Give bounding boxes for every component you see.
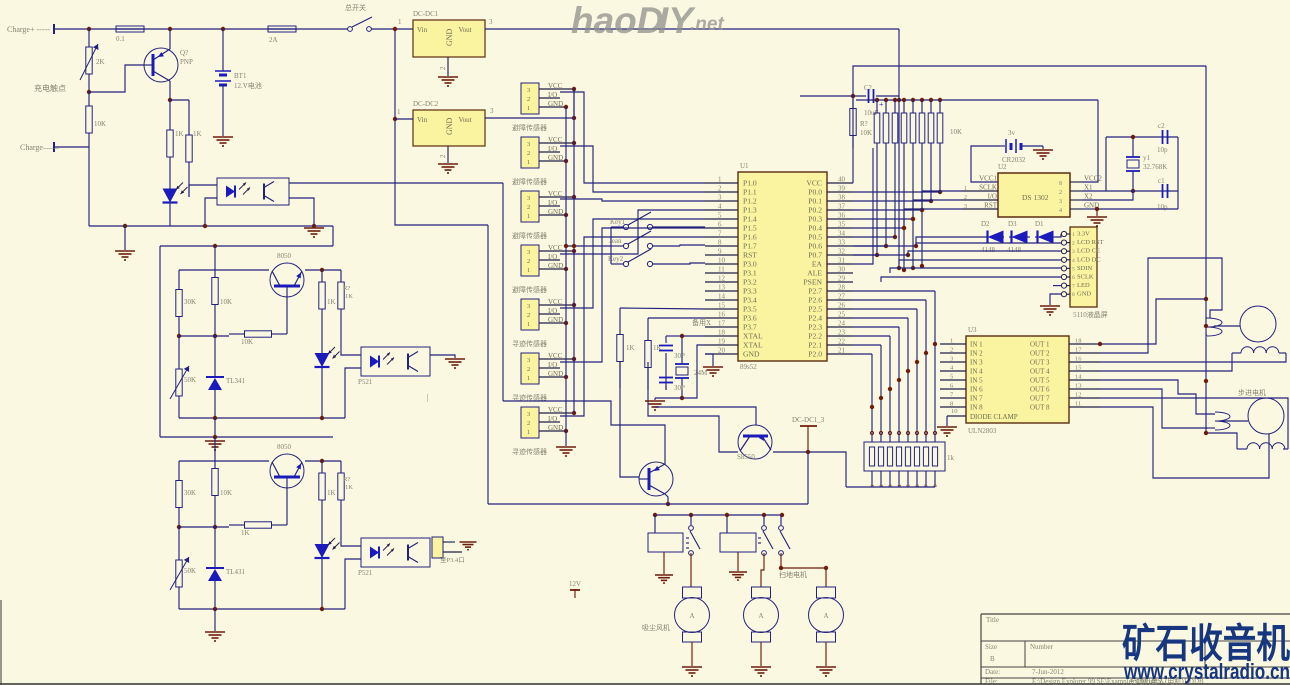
svg-text:1: 1 [398,18,402,26]
wire keys common [564,227,611,264]
watermark haoDIY.net [571,0,724,41]
svg-text:P2.7: P2.7 [808,287,822,296]
svg-text:A: A [824,612,829,620]
svg-text:至P3.4口: 至P3.4口 [440,556,465,564]
wire S8550 emitter [655,407,756,425]
ground DC-DC1 [438,77,458,86]
svg-text:40: 40 [838,176,846,184]
svg-text:27: 27 [838,293,846,301]
ground relay K1 [655,552,673,583]
svg-text:P2.5: P2.5 [808,305,822,314]
inductor motor2 coil B [1237,443,1288,449]
ground charger rail tap [115,226,135,260]
inductor motor2 coil A [1208,412,1248,430]
svg-text:Key1: Key1 [610,218,626,226]
svg-text:P2.1: P2.1 [808,341,822,350]
svg-text:LCD RST: LCD RST [1077,239,1104,246]
resistor 1K a [319,270,336,321]
svg-text:10p: 10p [1157,146,1168,154]
svg-text:22: 22 [838,338,846,346]
svg-text:GND: GND [445,28,454,46]
svg-text:1: 1 [397,108,401,116]
svg-text:PSEN: PSEN [803,278,822,287]
wire OUT6 route [1100,389,1208,428]
svg-text:P2.2: P2.2 [808,332,822,341]
svg-text:4148: 4148 [981,246,996,254]
junction J4 VCC bus [572,249,576,253]
svg-text:SCLK: SCLK [979,184,997,192]
wire OUT3 to coilB right [1100,353,1286,362]
svg-text:RST: RST [743,251,757,260]
svg-text:P3.2: P3.2 [743,278,757,287]
svg-text:1: 1 [527,321,530,328]
svg-text:XTAL: XTAL [743,332,763,341]
svg-text:S8550: S8550 [737,453,755,461]
capacitor c2 10p [1157,122,1168,154]
wire 1K b to opto [341,321,361,355]
svg-text:39: 39 [838,185,846,193]
svg-text:IN 4: IN 4 [970,368,983,376]
svg-text:U3: U3 [968,326,977,334]
svg-text:SDIN: SDIN [1077,265,1092,272]
wire P2 to IN staircase [853,291,937,442]
svg-text:寻迹传感器: 寻迹传感器 [512,339,547,348]
LED charger indicator [163,183,188,227]
ground motor1 [682,642,702,676]
wire sensor1 I/O to MCU [560,92,705,183]
svg-text:OUT 1: OUT 1 [1030,341,1050,349]
potentiometer 50K [170,527,196,609]
svg-text:1: 1 [527,105,530,112]
svg-text:.net: .net [690,14,724,35]
svg-text:OUT 4: OUT 4 [1030,368,1050,376]
svg-text:IN 2: IN 2 [970,350,983,358]
svg-text:P0.1: P0.1 [808,197,822,206]
junction J3 VCC bus [572,195,576,199]
resistor 1K base pullup a [167,100,184,187]
switch Key2 [608,249,705,267]
svg-text:1K: 1K [175,130,184,138]
wire EA pullup [853,148,873,264]
svg-text:89s52: 89s52 [740,363,757,371]
wire contact K1 to motor1 [690,553,692,587]
svg-text:3: 3 [527,411,530,418]
svg-text:29: 29 [838,275,846,283]
wire LCD GND [1050,294,1061,305]
IC U2 DS1302 [962,163,1102,217]
title block text [985,616,1204,685]
wire crystal ground link [655,398,682,400]
svg-text:24M: 24M [694,369,708,377]
svg-text:DC-DC1: DC-DC1 [413,10,439,18]
svg-text:28: 28 [838,284,846,292]
motor M4 扫地电机 [744,570,808,642]
svg-text:X1: X1 [1084,184,1093,192]
wire XTAL1 [666,334,705,338]
svg-text:备用X: 备用X [692,318,711,327]
wire block second rail [179,268,341,272]
svg-text:3: 3 [718,194,722,202]
wire left feeder [160,226,333,437]
svg-text:18: 18 [718,329,726,337]
svg-text:步进电机: 步进电机 [1238,388,1266,397]
power port DC-DC1_3 [792,416,825,452]
svg-text:1: 1 [527,375,530,382]
svg-text:IN 3: IN 3 [970,359,983,367]
wire OUT1 route [1098,299,1206,346]
svg-text:PNP: PNP [180,58,193,66]
wire charge+ rail y29 [54,28,348,30]
svg-text:I/O: I/O [548,199,557,207]
svg-text:GND: GND [548,100,563,108]
pin DC-DC1 gnd 2 [439,57,448,76]
svg-text:I/O: I/O [988,193,997,201]
svg-text:Size: Size [985,643,997,651]
wire contact K2a to motor2 [761,553,764,587]
svg-text:1K: 1K [241,529,250,537]
wire charger bottom rail [89,224,333,228]
svg-text:C?: C? [864,84,872,92]
svg-text:D1: D1 [1035,220,1044,228]
svg-text:1K: 1K [327,298,336,306]
svg-text:LCD CE: LCD CE [1077,248,1100,255]
wire NPN emitter [665,494,670,506]
junction J5 VCC bus [572,303,576,307]
wire Q emitter to rail [169,29,171,49]
wire SDIN link [890,268,1061,273]
ground DC-DC2 [438,164,458,173]
wire block second rail [179,459,341,463]
svg-text:P0.6: P0.6 [808,242,822,251]
svg-text:P521: P521 [358,378,373,386]
svg-text:1: 1 [527,267,530,274]
svg-text:1K: 1K [193,130,202,138]
label 备用X [692,318,711,327]
junction J1 GND bus [564,105,568,109]
svg-text:P1.5: P1.5 [743,224,757,233]
svg-text:VCC: VCC [548,352,563,360]
junction J5 GND bus [564,321,568,325]
junction J7 GND bus [564,429,568,433]
transistor 8050 [270,252,304,297]
svg-text:32.768K: 32.768K [1143,163,1167,171]
svg-text:OUT 5: OUT 5 [1030,377,1050,385]
LED indicator [315,512,340,609]
resistor network 1k x8 [864,431,955,487]
wire S8550 collector [773,450,846,487]
wire 1K to NPN base [620,362,639,477]
svg-text:2: 2 [527,312,530,319]
svg-text:2: 2 [439,66,447,70]
svg-text:A: A [690,612,695,620]
node Charge- terminal [20,142,60,152]
svg-text:25: 25 [838,311,846,319]
svg-text:30: 30 [838,266,846,274]
switch Key1 [610,212,705,230]
battery BT1 12V [215,29,262,136]
contact K2a [762,526,773,556]
svg-text:3: 3 [964,204,967,210]
svg-text:EA: EA [812,260,823,269]
wire pack bottom bus [846,486,935,488]
resistor 10K base [229,331,287,346]
svg-text:P1.1: P1.1 [743,188,757,197]
wire sensor5 I/O to MCU [560,219,705,308]
connector J7 寻迹传感器 [512,406,574,456]
wire P0 pin links [853,192,940,255]
junction divider [177,525,229,529]
wire SCLK link [881,277,1061,282]
svg-text:15: 15 [718,302,726,310]
svg-text:2: 2 [964,195,967,201]
wire DS1302 RST [902,209,962,272]
svg-text:2: 2 [527,204,530,211]
svg-text:ALE: ALE [807,269,822,278]
svg-text:RST: RST [984,202,998,210]
svg-text:GND: GND [548,262,563,270]
ground P3.4 connector [460,542,477,550]
wire block top rail [160,244,333,248]
resistor 1K a [319,461,336,512]
wire sensor2 I/O to MCU [560,146,705,192]
label 步进电机 [1238,388,1266,397]
svg-text:www.crystalradio.cn: www.crystalradio.cn [1123,659,1290,684]
resistor 10K vertical [212,437,232,527]
svg-text:VCC1: VCC1 [979,175,997,183]
svg-text:扫地电机: 扫地电机 [779,570,807,579]
svg-text:3: 3 [527,87,530,94]
wire relay supply rail [488,452,808,504]
connector 5110 LCD [1061,227,1107,319]
svg-text:6: 6 [1072,275,1075,281]
transistor Q 8050 driver [639,462,673,496]
crystal X1 24M [675,336,708,398]
svg-text:Vout: Vout [458,116,471,124]
svg-text:30K: 30K [184,298,196,306]
svg-text:1: 1 [718,176,722,184]
resistor 30K [176,461,196,527]
svg-text:SCLK: SCLK [1077,274,1094,281]
resistor 10K vertical [212,246,232,336]
node Charge+ terminal [7,24,54,34]
svg-text:GND: GND [548,154,563,162]
inductor motor1 coil B [1232,347,1286,353]
IC U3 ULN2803 [940,326,1100,435]
wire to opto input [189,185,217,197]
junction J3 GND bus [564,213,568,217]
svg-text:LCD DC: LCD DC [1077,256,1101,263]
LED indicator [315,321,340,418]
resistor 10K charger divider [86,92,106,147]
svg-text:P1.6: P1.6 [743,233,757,242]
svg-text:I/O: I/O [548,361,557,369]
motor M1 stepper [1240,306,1276,342]
wire relay control rail [653,513,784,517]
connector J4 避障传感器 [512,244,574,294]
ground CR2032 [1033,146,1053,159]
svg-text:1: 1 [527,159,530,166]
svg-text:13: 13 [718,284,726,292]
svg-text:23: 23 [838,329,846,337]
svg-text:GND: GND [548,424,563,432]
svg-text:3: 3 [527,195,530,202]
wire opto collector long run y183 [289,182,503,184]
svg-text:10K: 10K [220,298,232,306]
svg-text:15: 15 [1075,365,1082,372]
wire sensor7 I/O to MCU [560,237,705,416]
svg-text:避障传感器: 避障传感器 [512,231,547,240]
svg-text:U1: U1 [740,162,749,170]
svg-text:8: 8 [1059,181,1062,187]
svg-text:7-Jun-2012: 7-Jun-2012 [1032,668,1064,676]
wire LCD RST link [916,242,1061,244]
svg-text:3: 3 [1072,249,1075,255]
svg-text:X2: X2 [1084,193,1093,201]
svg-text:7: 7 [718,230,722,238]
svg-text:35: 35 [838,221,846,229]
svg-text:2: 2 [527,420,530,427]
svg-text:GND: GND [1077,291,1091,298]
transistor 8050 [270,443,304,488]
svg-text:Charge——: Charge—— [20,143,60,152]
svg-text:VCC: VCC [548,298,563,306]
junction J2 VCC bus [572,141,576,145]
svg-text:3: 3 [527,357,530,364]
label 充电触点 [34,83,66,93]
relay K1 [648,515,691,552]
resistor 1K b [338,270,353,321]
svg-text:10: 10 [718,257,726,265]
svg-text:P521: P521 [358,569,373,577]
ground battery [213,137,233,146]
wire block top rail [160,435,333,439]
svg-text:24: 24 [838,320,846,328]
svg-text:ULN2803: ULN2803 [968,427,997,435]
svg-text:Number: Number [1030,643,1054,651]
svg-text:5110液晶屏: 5110液晶屏 [1073,310,1108,319]
optocoupler U? charger [217,178,289,205]
connector J3 避障传感器 [512,190,574,240]
svg-text:5: 5 [1072,266,1075,272]
ground crystal [645,401,665,410]
title block frame [981,614,1290,684]
wire DC-DC1 output [485,18,899,29]
svg-text:GND: GND [548,370,563,378]
capacitor 30P upper [659,336,685,390]
svg-text:3v: 3v [1008,129,1016,137]
shunt regulator TL431 [206,527,246,609]
svg-text:D2: D2 [981,220,990,228]
svg-text:R?: R? [860,120,868,128]
svg-text:12.V电池: 12.V电池 [234,81,262,90]
svg-text:R?: R? [343,285,350,292]
svg-text:1K: 1K [345,293,353,300]
voltage module DC-DC2 [413,100,485,146]
svg-text:1: 1 [964,186,967,192]
wire sensor4 I/O to MCU [560,210,705,254]
svg-text:9: 9 [718,248,722,256]
svg-text:OUT 7: OUT 7 [1030,395,1050,403]
wire opto return [345,559,361,609]
svg-text:GND: GND [548,316,563,324]
svg-text:21: 21 [838,347,846,355]
svg-text:P0.2: P0.2 [808,206,822,215]
svg-text:Title: Title [986,616,999,624]
IC U1 89s52 [705,162,853,371]
svg-text:3: 3 [490,107,494,115]
wire OUT8 route [1100,407,1269,478]
svg-text:File:: File: [985,678,998,685]
svg-text:Vout: Vout [458,26,471,34]
capacitor C? 10uF [800,84,899,117]
diode D3 4148 [1007,220,1030,254]
resistor 10K base [229,522,287,537]
wire charge- to divider [54,147,89,226]
svg-text:y1: y1 [1143,154,1151,162]
svg-text:8050: 8050 [277,443,292,451]
inductor motor1 coil A [1206,318,1240,336]
wire main rail to DC-DC2 Vin [393,27,488,225]
svg-text:P3.6: P3.6 [743,314,757,323]
svg-text:34: 34 [838,230,846,238]
wire sensor6 I/O to MCU [560,228,705,362]
svg-text:IN 1: IN 1 [970,341,983,349]
svg-text:P2.3: P2.3 [808,323,822,332]
svg-text:I/O: I/O [548,91,557,99]
svg-text:XTAL: XTAL [743,341,763,350]
wire DS1302 IO [911,200,962,270]
svg-text:14: 14 [1075,374,1082,381]
svg-text:30P: 30P [674,352,685,360]
wire pin33 to diode chain [853,237,987,248]
svg-text:总开关: 总开关 [345,3,366,12]
svg-text:Vin: Vin [417,26,428,34]
connector J2 避障传感器 [512,136,574,186]
wire rail to pullup bus [897,29,901,270]
svg-text:20: 20 [718,347,726,355]
svg-text:IN 8: IN 8 [970,404,983,412]
svg-text:Key2: Key2 [608,255,624,263]
svg-text:2: 2 [527,258,530,265]
svg-text:IN 7: IN 7 [970,395,983,403]
svg-text:3: 3 [489,18,493,26]
svg-text:50K: 50K [184,567,196,575]
svg-text:Q?: Q? [180,49,188,57]
motor M3 吸尘风机 [642,587,710,642]
svg-text:DS 1302: DS 1302 [1022,193,1049,202]
svg-text:I/O: I/O [548,307,557,315]
svg-text:3: 3 [527,249,530,256]
svg-text:haoD: haoD [571,0,664,41]
wire OUT5 route [1100,380,1215,414]
junction J4 GND bus [564,267,568,271]
svg-text:c1: c1 [1158,177,1165,185]
svg-text:VCC2: VCC2 [1084,175,1102,183]
watermark crystalradio [1122,622,1290,684]
svg-text:B: B [990,655,995,663]
switch Jean [609,231,705,249]
wire rail to coilB left [1204,431,1237,449]
optocoupler P521 [358,538,430,577]
svg-text:5: 5 [718,212,722,220]
svg-text:4148: 4148 [1007,246,1022,254]
wire OUT7 route [1100,398,1288,449]
svg-text:P3.5: P3.5 [743,305,757,314]
svg-text:P2.0: P2.0 [808,350,822,359]
wire VCC bus x574 [573,89,575,413]
junction J1 VCC bus [572,87,576,91]
ground LCD [1040,306,1060,315]
